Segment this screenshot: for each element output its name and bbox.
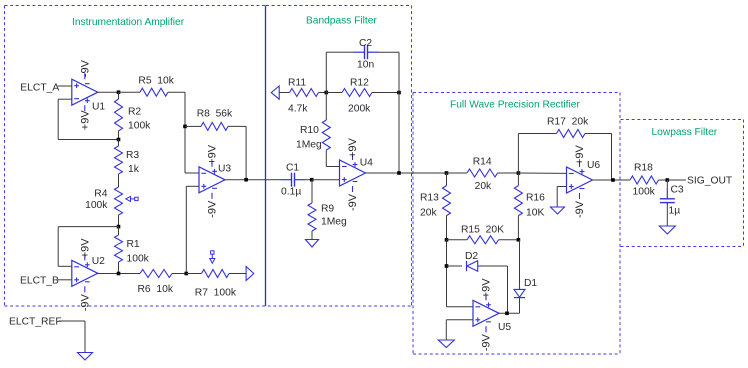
diode D2 bbox=[447, 261, 508, 271]
label R18 bbox=[634, 163, 653, 174]
svg-text:100k: 100k bbox=[128, 121, 151, 132]
svg-text:10n: 10n bbox=[357, 60, 374, 71]
label C1 bbox=[286, 163, 299, 174]
label C3 bbox=[671, 185, 684, 196]
label R1 bbox=[127, 239, 140, 250]
resistor R7 (potentiometer) bbox=[186, 270, 246, 278]
svg-text:+9V: +9V bbox=[207, 144, 219, 165]
capacitor C1 bbox=[271, 173, 312, 187]
label C2 value bbox=[357, 60, 374, 71]
section box Bandpass Filter (dashed) bbox=[266, 6, 412, 307]
junction U6 output / R17 leg bbox=[611, 178, 615, 182]
wire U1 feedback loop bbox=[58, 99, 118, 139]
junction C1 / R9 / U4+ bbox=[310, 178, 314, 182]
svg-text:-9V: -9V bbox=[574, 200, 586, 218]
capacitor C2 bbox=[341, 45, 399, 59]
svg-text:-9V: -9V bbox=[79, 59, 91, 77]
svg-text:20k: 20k bbox=[475, 181, 492, 192]
resistor R3 bbox=[115, 140, 123, 188]
wire U5 output to D1 leg bbox=[499, 312, 520, 314]
section title Instrumentation Amplifier bbox=[72, 17, 185, 28]
resistor R11 bbox=[279, 89, 326, 97]
resistor R12 bbox=[326, 89, 399, 97]
wire U3 output to C1 bbox=[225, 179, 271, 181]
svg-text:U3: U3 bbox=[218, 164, 231, 175]
svg-text:U2: U2 bbox=[92, 256, 105, 267]
wire R17 right down to U6 output bbox=[612, 134, 614, 181]
svg-text:C2: C2 bbox=[359, 38, 372, 49]
divider line between sections bbox=[265, 6, 267, 307]
junction R15 / R16 / D1 bbox=[517, 238, 521, 242]
wire R8 right down to U3 output bbox=[245, 126, 247, 179]
svg-text:R17 20k: R17 20k bbox=[547, 117, 589, 128]
resistor R10 bbox=[322, 93, 330, 167]
label R9 value bbox=[321, 217, 347, 228]
wire U4 output bbox=[366, 172, 447, 174]
svg-text:0.1µ: 0.1µ bbox=[281, 187, 301, 198]
section title Bandpass Filter bbox=[306, 16, 377, 27]
svg-text:U5: U5 bbox=[498, 322, 511, 333]
label R10 value bbox=[296, 140, 322, 151]
label C3 value bbox=[669, 206, 681, 217]
op-amp U2 bbox=[72, 238, 105, 312]
svg-text:C1: C1 bbox=[286, 163, 299, 174]
junction U5 output / D2 leg bbox=[505, 312, 509, 316]
svg-text:Instrumentation Amplifier: Instrumentation Amplifier bbox=[72, 17, 185, 28]
label R11 value bbox=[288, 104, 308, 115]
label R6 value bbox=[138, 284, 174, 295]
svg-text:U1: U1 bbox=[92, 102, 105, 113]
section box Instrumentation Amplifier (dashed) bbox=[5, 6, 412, 307]
junction U3 output / R8 bbox=[244, 178, 248, 182]
node ELCT_REF label bbox=[9, 317, 62, 328]
wire R5 to U3 inverting rail bbox=[185, 92, 199, 173]
section title Lowpass Filter bbox=[652, 127, 718, 138]
label R5 value bbox=[138, 75, 174, 86]
op-amp U5 bbox=[473, 278, 511, 352]
svg-text:SIG_OUT: SIG_OUT bbox=[687, 176, 733, 187]
label R4 value bbox=[85, 200, 108, 211]
wire U1 output to node bbox=[98, 91, 119, 93]
label R8 value bbox=[197, 109, 233, 120]
junction R12 right / C2 / output rail bbox=[397, 91, 401, 95]
svg-text:4.7k: 4.7k bbox=[288, 104, 308, 115]
label R4 bbox=[94, 189, 107, 200]
resistor R18 bbox=[630, 176, 667, 184]
svg-text:R12: R12 bbox=[350, 77, 369, 88]
svg-text:R3: R3 bbox=[126, 150, 139, 161]
junction node A (U1 fb / R2 / R3) bbox=[117, 138, 121, 142]
svg-text:R10: R10 bbox=[300, 125, 319, 136]
resistor R1 bbox=[115, 227, 123, 274]
svg-text:R14: R14 bbox=[473, 157, 492, 168]
wire ELCT_A to U1 + input bbox=[58, 85, 72, 87]
wire U3 + input rail down to R6/R7 bbox=[186, 186, 199, 273]
svg-text:ELCT_A: ELCT_A bbox=[20, 82, 59, 93]
potentiometer R4 wiper arrow bbox=[126, 196, 138, 201]
svg-text:1Meg: 1Meg bbox=[321, 217, 347, 228]
label R14 bbox=[473, 157, 492, 168]
capacitor C3 bbox=[660, 180, 675, 226]
op-amp U1 bbox=[72, 59, 106, 130]
svg-text:+9V: +9V bbox=[481, 278, 493, 299]
junction U2 output / R1 / R6 bbox=[117, 272, 121, 276]
wire C1 junction to U4 + input bbox=[312, 179, 340, 181]
svg-text:Full Wave Precision Rectifier: Full Wave Precision Rectifier bbox=[450, 100, 580, 111]
svg-text:R13: R13 bbox=[420, 193, 439, 204]
section box Full Wave Precision Rectifier (dashed) bbox=[413, 93, 620, 355]
svg-text:R7 100k: R7 100k bbox=[195, 288, 237, 299]
svg-text:R5 10k: R5 10k bbox=[138, 75, 174, 86]
svg-text:-9V: -9V bbox=[481, 334, 493, 352]
label R3 value bbox=[128, 164, 140, 175]
label R13 bbox=[420, 193, 439, 204]
svg-text:ELCT_B: ELCT_B bbox=[20, 276, 59, 287]
label R15 value bbox=[461, 225, 504, 236]
svg-text:R15 20K: R15 20K bbox=[461, 225, 504, 236]
label R17 value bbox=[547, 117, 589, 128]
svg-text:1µ: 1µ bbox=[669, 206, 681, 217]
node ELCT_A label bbox=[20, 82, 59, 93]
ground below C3 bbox=[659, 226, 675, 234]
resistor R9 bbox=[308, 180, 316, 240]
potentiometer R7 wiper arrow bbox=[210, 251, 215, 263]
svg-text:D2: D2 bbox=[465, 251, 478, 262]
label R16 value bbox=[526, 208, 544, 219]
svg-text:100k: 100k bbox=[85, 200, 108, 211]
svg-text:1k: 1k bbox=[128, 164, 140, 175]
svg-text:R9: R9 bbox=[321, 204, 334, 215]
net connector arrow right of R7 bbox=[246, 267, 254, 281]
label R11 bbox=[288, 77, 306, 88]
svg-text:R11: R11 bbox=[288, 77, 306, 88]
label D2 bbox=[465, 251, 478, 262]
svg-text:R18: R18 bbox=[634, 163, 653, 174]
label R18 value bbox=[633, 187, 656, 198]
ground below U5 bbox=[438, 340, 454, 348]
wire ELCT_REF to ground bbox=[59, 321, 86, 353]
ground below U6 + input bbox=[551, 207, 565, 214]
svg-text:+9V: +9V bbox=[347, 137, 359, 158]
wire R17 left leg bbox=[517, 134, 519, 174]
junction D2 left on rail bbox=[445, 264, 449, 268]
resistor R8 bbox=[185, 122, 246, 130]
svg-text:100k: 100k bbox=[633, 187, 656, 198]
label R16 bbox=[526, 193, 545, 204]
resistor R4 (potentiometer) bbox=[115, 187, 123, 227]
net connector arrow left of R11 bbox=[271, 86, 279, 99]
junction R18 / C3 / SIG_OUT bbox=[666, 178, 670, 182]
label R10 bbox=[300, 125, 319, 136]
junction R13 / R14 / main line bbox=[445, 171, 449, 175]
node ELCT_B label bbox=[20, 276, 59, 287]
svg-text:100k: 100k bbox=[127, 254, 150, 265]
svg-text:1Meg: 1Meg bbox=[296, 140, 322, 151]
wire ELCT_B to U2 + input bbox=[58, 279, 72, 281]
op-amp U6 bbox=[567, 144, 601, 218]
label R12 value bbox=[348, 104, 371, 115]
wire C2 loop left bbox=[326, 52, 341, 92]
svg-text:+9V: +9V bbox=[79, 110, 91, 131]
resistor R2 bbox=[115, 92, 123, 139]
resistor R5 bbox=[119, 88, 186, 96]
wire U6 + input to ground bbox=[557, 187, 566, 208]
svg-text:200k: 200k bbox=[348, 104, 371, 115]
label D1 bbox=[524, 278, 537, 289]
label R7 value bbox=[195, 288, 237, 299]
junction R13 / R15 rail bbox=[445, 238, 449, 242]
label R14 value bbox=[475, 181, 492, 192]
resistor R17 bbox=[518, 130, 611, 138]
op-amp U4 bbox=[340, 137, 374, 211]
ground ELCT_REF bbox=[78, 353, 93, 361]
resistor R16 bbox=[514, 173, 522, 240]
svg-text:C3: C3 bbox=[671, 185, 684, 196]
wire main line to U6 - input bbox=[518, 172, 566, 174]
svg-text:20k: 20k bbox=[420, 208, 437, 219]
label R2 bbox=[128, 106, 141, 117]
wire left rail down to D2 and U5 - bbox=[447, 240, 474, 307]
resistor R15 bbox=[447, 236, 519, 244]
svg-text:U4: U4 bbox=[360, 158, 373, 169]
svg-text:R8 56k: R8 56k bbox=[197, 109, 233, 120]
resistor R14 bbox=[447, 169, 519, 177]
junction U1 output bbox=[117, 90, 121, 94]
svg-text:R2: R2 bbox=[128, 106, 141, 117]
svg-text:+9V: +9V bbox=[574, 144, 586, 165]
label R2 value bbox=[128, 121, 151, 132]
label R9 bbox=[321, 204, 334, 215]
section title Full Wave Precision Rectifier bbox=[450, 100, 580, 111]
diode D1 bbox=[514, 240, 525, 313]
wire U2 feedback loop bbox=[58, 227, 118, 267]
label R12 bbox=[350, 77, 369, 88]
svg-text:R6 10k: R6 10k bbox=[138, 284, 174, 295]
label R13 value bbox=[420, 208, 437, 219]
wire U2 output bbox=[98, 273, 140, 275]
ground below R9 bbox=[306, 240, 319, 248]
svg-text:U6: U6 bbox=[587, 160, 600, 171]
op-amp U3 bbox=[199, 144, 231, 218]
wire D2 right down to U5 output bbox=[507, 266, 509, 313]
svg-text:R1: R1 bbox=[127, 239, 140, 250]
junction node B (U2 fb / R4 / R1) bbox=[117, 225, 121, 229]
label R3 bbox=[126, 150, 139, 161]
junction R8 tap bbox=[183, 125, 187, 129]
svg-text:D1: D1 bbox=[524, 278, 537, 289]
svg-text:R16: R16 bbox=[526, 193, 545, 204]
junction U4 output / C2 rail bbox=[397, 171, 401, 175]
section box Lowpass Filter (dashed) bbox=[621, 120, 744, 247]
svg-text:-9V: -9V bbox=[347, 193, 359, 211]
resistor R6 bbox=[140, 270, 186, 278]
wire U6 output to R18 bbox=[593, 179, 631, 181]
wire to SIG_OUT bbox=[667, 179, 686, 181]
svg-text:Lowpass Filter: Lowpass Filter bbox=[652, 127, 718, 138]
wire C2 loop right down bbox=[398, 52, 400, 173]
label C2 bbox=[359, 38, 372, 49]
svg-text:-9V: -9V bbox=[79, 294, 91, 312]
label C1 value bbox=[281, 187, 301, 198]
node SIG_OUT label bbox=[687, 176, 733, 187]
svg-text:10K: 10K bbox=[526, 208, 544, 219]
resistor R13 bbox=[443, 173, 451, 240]
junction R14 / R16 / R17 / U6- bbox=[517, 171, 521, 175]
label R1 value bbox=[127, 254, 150, 265]
wire U5 + input to ground bbox=[446, 320, 473, 340]
junction R6/R7/U3+ rail bbox=[185, 272, 189, 276]
junction R11/R12/C2/R10 bbox=[325, 91, 329, 95]
svg-text:Bandpass Filter: Bandpass Filter bbox=[306, 16, 377, 27]
svg-text:R4: R4 bbox=[94, 189, 107, 200]
svg-text:ELCT_REF: ELCT_REF bbox=[9, 317, 62, 328]
svg-text:+9V: +9V bbox=[79, 238, 91, 259]
svg-text:-9V: -9V bbox=[207, 200, 219, 218]
wire R10 to U4 - input bbox=[326, 166, 339, 168]
